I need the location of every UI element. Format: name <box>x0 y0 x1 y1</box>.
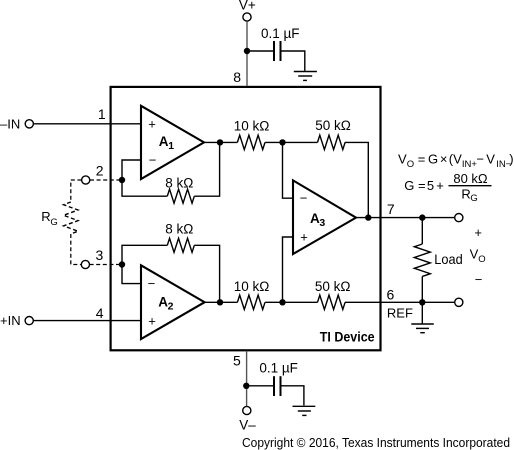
wire R3 to R5 <box>265 141 317 143</box>
wire R6 to REF terminal pin 6 <box>345 301 455 303</box>
svg-text:V–: V– <box>239 418 256 433</box>
terminal RG pin 3 <box>81 260 89 268</box>
terminal RG pin 2 <box>82 176 90 184</box>
capacitor C1 0.1 uF <box>261 26 300 61</box>
svg-text:TI Device: TI Device <box>320 328 375 344</box>
wire V+ to pin 8 <box>246 21 248 86</box>
svg-text:): ) <box>509 152 513 167</box>
capacitor C2 0.1 uF <box>259 360 298 396</box>
wire node to resistor R2 <box>122 245 167 264</box>
svg-text:10 kΩ: 10 kΩ <box>234 119 270 134</box>
junction V+ node <box>244 48 250 54</box>
svg-text:Copyright © 2016, Texas Instru: Copyright © 2016, Texas Instruments Inco… <box>242 435 510 450</box>
svg-text:(V: (V <box>449 152 462 167</box>
wire node to A2 minus input <box>122 265 141 284</box>
svg-text:50 kΩ: 50 kΩ <box>315 279 351 294</box>
wire junction to capacitor C1 <box>247 50 273 52</box>
dashed wire pin3 to node <box>90 264 122 266</box>
wire load to REF node <box>421 276 423 302</box>
svg-text:2: 2 <box>96 162 104 178</box>
svg-text:–IN: –IN <box>0 116 20 131</box>
svg-text:V: V <box>470 247 479 262</box>
svg-text:IN+: IN+ <box>462 159 478 170</box>
wire A3 output pin 7 <box>356 217 455 219</box>
svg-text:G =: G = <box>404 178 425 193</box>
svg-text:−: − <box>300 191 308 206</box>
svg-text:1: 1 <box>98 106 106 122</box>
svg-text:7: 7 <box>387 201 395 217</box>
svg-text:G: G <box>50 217 57 228</box>
svg-text:5: 5 <box>233 353 241 369</box>
svg-text:+: + <box>436 178 444 193</box>
svg-text:10 kΩ: 10 kΩ <box>234 279 270 294</box>
svg-text:V: V <box>398 152 407 167</box>
wire junction to capacitor C2 <box>246 385 273 387</box>
svg-text:R: R <box>41 209 50 224</box>
wire +IN to A2 plus input <box>34 320 142 322</box>
node pin2 junction <box>119 177 125 183</box>
wire A1 output to R3 <box>204 141 237 143</box>
svg-text:+IN: +IN <box>0 313 21 328</box>
node A3 minus junction <box>279 139 285 145</box>
terminal V+ <box>239 0 256 21</box>
resistor R5 50 kOhm <box>315 118 351 149</box>
wire pin 5 <box>246 351 248 406</box>
terminal V- <box>239 406 256 432</box>
svg-text:80 kΩ: 80 kΩ <box>453 171 488 186</box>
svg-text:0.1 µF: 0.1 µF <box>259 360 298 375</box>
ground (bottom) <box>293 406 316 415</box>
svg-text:+: + <box>148 117 156 132</box>
svg-text:G: G <box>428 152 438 167</box>
svg-text:0.1 µF: 0.1 µF <box>261 26 300 41</box>
ground (REF) <box>411 324 434 333</box>
svg-text:V: V <box>486 152 495 167</box>
svg-text:R: R <box>461 186 470 201</box>
op-amp A3 <box>293 180 356 254</box>
dashed wire pin2 to node <box>90 179 122 181</box>
svg-text:8 kΩ: 8 kΩ <box>165 175 193 190</box>
svg-text:+: + <box>474 225 482 240</box>
svg-text:2: 2 <box>168 300 174 312</box>
svg-text:8: 8 <box>233 69 241 85</box>
wire node to A3 plus input <box>283 237 294 302</box>
svg-text:−: − <box>476 152 484 167</box>
svg-text:6: 6 <box>387 286 395 302</box>
wire R1 to A1 output <box>194 142 219 196</box>
resistor R3 10 kOhm <box>234 119 270 150</box>
resistor RG (external, dashed) <box>41 202 78 234</box>
wire node to load <box>421 218 423 244</box>
svg-text:−: − <box>149 152 157 167</box>
node A3 plus junction <box>279 299 285 305</box>
equation G = 5 + 80 kOhm / RG <box>404 171 491 204</box>
svg-text:V+: V+ <box>239 0 256 12</box>
svg-text:O: O <box>407 159 414 170</box>
dashed wire pin2 to RG <box>71 180 82 202</box>
op-amp A1 <box>141 106 204 179</box>
terminal -IN <box>0 116 33 131</box>
wire R2 to A2 output <box>194 245 219 302</box>
resistor R2 8 kOhm <box>165 222 194 253</box>
svg-text:=: = <box>418 152 426 167</box>
svg-text:×: × <box>440 152 448 167</box>
IC outline box <box>111 87 381 350</box>
node A1 output <box>217 139 223 145</box>
op-amp A2 <box>141 265 205 339</box>
node A2 output <box>217 299 223 305</box>
wire node to resistor R1 <box>122 180 167 196</box>
svg-text:+: + <box>300 229 308 244</box>
node load top <box>419 214 425 220</box>
svg-text:−: − <box>475 272 483 287</box>
node pin3 junction <box>119 261 125 267</box>
svg-text:5: 5 <box>427 178 434 193</box>
junction V- node <box>243 383 249 389</box>
svg-text:Load: Load <box>434 251 462 267</box>
terminal +IN <box>0 313 33 328</box>
wire -IN to A1 plus input <box>34 123 141 125</box>
svg-text:50 kΩ: 50 kΩ <box>315 118 351 133</box>
svg-text:−: − <box>148 276 156 291</box>
svg-text:REF: REF <box>387 306 413 321</box>
wire node to A3 minus input <box>283 142 294 198</box>
wire REF node to ground <box>421 302 423 324</box>
terminal VO <box>455 214 463 222</box>
dashed wire RG to pin3 <box>71 234 81 265</box>
resistor Load <box>414 244 462 276</box>
svg-text:G: G <box>470 193 477 204</box>
wire capacitor to ground (top) <box>282 51 305 71</box>
resistor R6 50 kOhm <box>315 279 351 309</box>
wire capacitor to ground (bottom) <box>282 386 304 406</box>
terminal REF circle <box>455 298 463 306</box>
VO label <box>470 247 486 265</box>
equation VO = G x (VIN+ - VIN-) <box>398 152 514 170</box>
node A3 output <box>365 214 371 220</box>
resistor R4 10 kOhm <box>234 279 270 309</box>
svg-text:3: 3 <box>319 217 325 229</box>
svg-text:1: 1 <box>168 140 174 152</box>
wire A2 output to R4 <box>205 301 238 303</box>
node REF junction <box>419 299 425 305</box>
wire R4 to R6 <box>265 301 317 303</box>
svg-text:8 kΩ: 8 kΩ <box>165 222 193 237</box>
wire node to A1 minus input <box>122 160 141 180</box>
svg-text:+: + <box>148 313 156 328</box>
svg-text:3: 3 <box>96 247 104 263</box>
svg-text:O: O <box>478 254 485 265</box>
wire R5 to A3 output <box>345 142 368 217</box>
svg-text:4: 4 <box>96 305 104 321</box>
ground (top) <box>294 72 317 81</box>
resistor R1 8 kOhm <box>165 175 194 203</box>
